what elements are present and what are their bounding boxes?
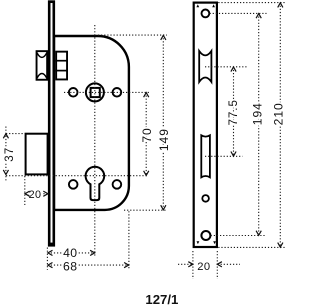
model number label 127/1 — [145, 292, 178, 307]
faceplate corner marks — [196, 4, 216, 244]
top fixing screw hole — [202, 10, 210, 18]
dimension 210 (plate length) — [271, 3, 285, 248]
reference line deadbolt centre — [205, 155, 243, 157]
svg-text:127/1: 127/1 — [145, 292, 178, 307]
reference line cylinder centre — [6, 175, 147, 177]
deadbolt opening (front view) — [201, 135, 210, 177]
latch bolt head (protruding left of faceplate) — [37, 51, 48, 80]
svg-text:20: 20 — [29, 189, 42, 201]
svg-text:40: 40 — [63, 246, 77, 260]
svg-text:68: 68 — [63, 259, 77, 273]
latch bolt tail (inside body, 3 sections) — [55, 52, 68, 80]
euro cylinder profile hole — [86, 167, 105, 200]
svg-text:77.5: 77.5 — [228, 99, 240, 125]
svg-text:20: 20 — [197, 261, 210, 273]
bottom fixing screw hole — [201, 231, 210, 240]
reference line latch centre — [205, 66, 247, 68]
svg-text:149: 149 — [157, 128, 171, 151]
svg-text:70: 70 — [140, 127, 154, 142]
reference line body right edge vertical — [128, 211, 130, 270]
reference line bolt face vertical — [24, 176, 26, 205]
svg-text:37: 37 — [4, 147, 16, 162]
dimension 68 (case depth) — [48, 259, 129, 273]
faceplate (front view) — [194, 3, 217, 247]
dimension 20 (plate width) — [178, 251, 240, 279]
follower side screw holes — [69, 88, 121, 97]
faceplate (side view strip) — [48, 0, 55, 246]
dimension 37 (deadbolt height) — [3, 127, 16, 183]
reference line body top — [98, 34, 167, 36]
deadbolt (side view, thrown) — [26, 134, 48, 175]
cylinder side fixing holes — [69, 180, 121, 189]
dimension 70 (follower to cylinder) — [140, 92, 154, 175]
svg-text:210: 210 — [271, 102, 285, 125]
cylinder fixing screw hole — [202, 195, 209, 202]
reference line top screw centre — [210, 12, 267, 14]
dimension 194 (screw centres) — [250, 13, 264, 235]
centre line vertical through follower and cylinder — [94, 25, 96, 256]
reference line bottom screw centre — [211, 235, 267, 237]
reference line deadbolt top — [6, 133, 25, 135]
lock body (side view, rounded right corners) — [54, 36, 129, 210]
reference line plate top — [218, 2, 286, 4]
follower hub (square spindle in circle) — [86, 83, 104, 101]
dimension 77.5 (latch to deadbolt) — [228, 67, 240, 157]
reference line faceplate front vertical — [46, 248, 48, 271]
reference line follower centre — [64, 91, 150, 93]
latch opening (front view) — [199, 51, 211, 82]
reference line plate bottom — [218, 246, 286, 248]
dimension 149 (body height) — [157, 35, 171, 210]
dimension 40 (backset) — [48, 246, 95, 260]
reference line body bottom — [124, 209, 167, 211]
svg-text:194: 194 — [250, 102, 264, 125]
dimension 20 (deadbolt throw) — [25, 189, 48, 201]
